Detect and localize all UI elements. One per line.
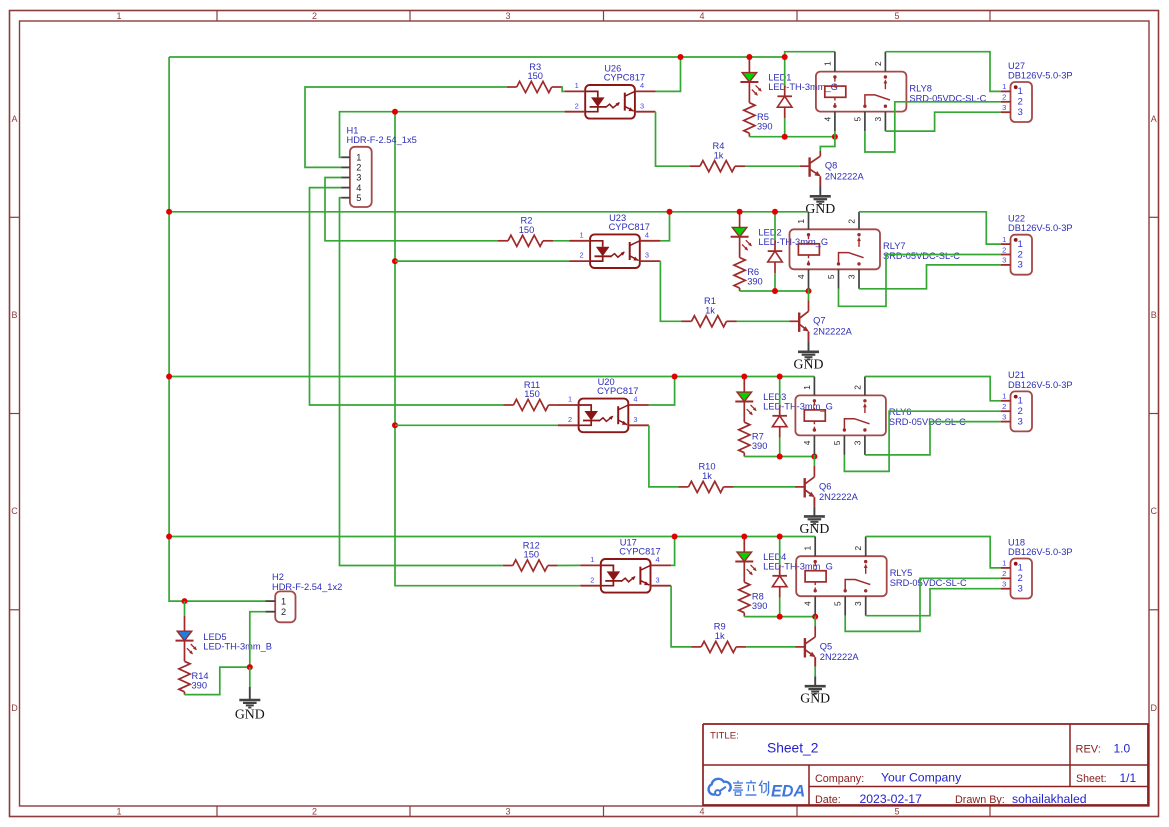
svg-text:2: 2	[568, 415, 572, 424]
svg-text:3: 3	[645, 251, 649, 260]
node	[247, 664, 253, 670]
svg-text:CYPC817: CYPC817	[604, 73, 645, 83]
svg-text:U27: U27	[1008, 61, 1025, 71]
svg-text:4: 4	[796, 274, 806, 279]
svg-text:150: 150	[524, 389, 540, 399]
wire	[660, 212, 669, 241]
node	[806, 288, 812, 294]
diode D1 flyback	[777, 57, 792, 137]
node	[777, 534, 783, 540]
svg-text:GND: GND	[805, 201, 835, 216]
wire	[656, 112, 691, 167]
transistor Q6 2N2222A NPN	[795, 457, 859, 507]
svg-text:Company:: Company:	[815, 773, 864, 785]
resistor R6 390	[734, 237, 763, 291]
node	[746, 54, 752, 60]
wire H1 pin4 to R11	[310, 188, 504, 405]
svg-text:2: 2	[312, 807, 317, 817]
svg-text:sohailakhaled: sohailakhaled	[1012, 792, 1087, 806]
svg-text:Your Company: Your Company	[881, 771, 962, 785]
svg-text:GND: GND	[800, 691, 830, 706]
svg-text:2: 2	[1002, 245, 1006, 254]
node	[777, 374, 783, 380]
svg-text:390: 390	[752, 441, 768, 451]
svg-text:3: 3	[1002, 580, 1006, 589]
wire VCC rail channel 4	[169, 536, 815, 538]
svg-text:4: 4	[802, 440, 812, 445]
svg-text:REV:: REV:	[1076, 744, 1101, 756]
wire	[744, 616, 815, 618]
svg-text:1: 1	[1018, 563, 1023, 574]
svg-text:LED4: LED4	[763, 552, 786, 562]
svg-text:2023-02-17: 2023-02-17	[860, 792, 923, 806]
svg-text:R7: R7	[752, 432, 764, 442]
svg-text:1: 1	[1018, 239, 1023, 250]
svg-text:RLY6: RLY6	[889, 407, 912, 417]
wire	[734, 486, 795, 488]
svg-text:RLY5: RLY5	[890, 568, 913, 578]
svg-text:3: 3	[656, 575, 660, 584]
svg-text:3: 3	[853, 601, 863, 606]
node	[678, 54, 684, 60]
relay RLY7 SRD-05VDC-SL-C	[790, 212, 961, 289]
connector U21 DB126V-5.0-3P	[1001, 370, 1073, 431]
LED LED5 LED-TH-3mm_B	[176, 601, 273, 654]
svg-text:1: 1	[1002, 82, 1006, 91]
svg-text:2: 2	[1018, 97, 1023, 108]
svg-text:RLY8: RLY8	[909, 83, 932, 93]
node	[772, 209, 778, 215]
svg-text:1: 1	[1018, 396, 1023, 407]
resistor R12 150	[503, 540, 558, 571]
wire	[865, 102, 1001, 152]
svg-text:3: 3	[640, 101, 644, 110]
wire	[749, 136, 835, 138]
LED LED2 LED-TH-3mm_G	[731, 212, 829, 251]
relay RLY5 SRD-05VDC-SL-C	[796, 537, 967, 616]
wire	[865, 422, 1001, 455]
node	[741, 374, 747, 380]
svg-text:C: C	[1151, 506, 1158, 516]
svg-text:4: 4	[803, 601, 813, 606]
ground GND (channel 2)	[794, 352, 824, 372]
wire VCC rail channel 3	[169, 376, 814, 378]
wire middle trunk (opto pin2 bus)	[395, 112, 580, 586]
svg-text:2: 2	[873, 61, 883, 66]
svg-text:Q7: Q7	[813, 316, 825, 326]
svg-text:1: 1	[116, 11, 121, 21]
node	[672, 534, 678, 540]
svg-text:2: 2	[1002, 402, 1006, 411]
node	[782, 134, 788, 140]
svg-text:3: 3	[633, 415, 637, 424]
wire	[845, 578, 1001, 631]
node	[392, 109, 398, 115]
svg-text:C: C	[11, 506, 18, 516]
svg-text:4: 4	[699, 807, 704, 817]
wire	[814, 667, 816, 677]
node	[182, 598, 188, 604]
svg-text:1: 1	[796, 219, 806, 224]
svg-text:SRD-05VDC-SL-C: SRD-05VDC-SL-C	[890, 578, 967, 588]
wire	[649, 425, 679, 487]
svg-text:3: 3	[873, 116, 883, 121]
svg-text:RLY7: RLY7	[883, 241, 906, 251]
svg-text:3: 3	[1002, 256, 1006, 265]
resistor R7 390	[739, 402, 768, 457]
connector H1 HDR-F-2.54_1x5	[341, 125, 417, 207]
svg-text:5: 5	[826, 274, 836, 279]
svg-text:Sheet_2: Sheet_2	[767, 741, 818, 756]
svg-text:R8: R8	[752, 592, 764, 602]
svg-text:3: 3	[1018, 416, 1023, 427]
svg-text:5: 5	[356, 193, 361, 203]
svg-text:H1: H1	[347, 125, 359, 135]
svg-text:GND: GND	[799, 521, 829, 536]
resistor R5 390	[744, 82, 773, 137]
resistor R3 150	[507, 62, 562, 93]
svg-text:2N2222A: 2N2222A	[813, 327, 853, 337]
node	[811, 454, 817, 460]
node	[777, 614, 783, 620]
svg-text:A: A	[11, 114, 17, 124]
node	[667, 209, 673, 215]
svg-text:1/1: 1/1	[1120, 771, 1137, 785]
wire	[745, 165, 800, 167]
LED LED4 LED-TH-3mm_G	[735, 537, 833, 576]
node	[737, 209, 743, 215]
svg-text:5: 5	[833, 601, 843, 606]
svg-text:390: 390	[757, 122, 773, 132]
op-amp U20 CYPC817 optocoupler	[558, 377, 649, 432]
wire	[553, 240, 570, 242]
svg-text:2: 2	[575, 101, 579, 110]
LED LED3 LED-TH-3mm_G	[735, 377, 833, 416]
svg-text:R5: R5	[757, 112, 769, 122]
wire	[649, 377, 675, 406]
ground GND (channel 1)	[805, 196, 835, 216]
svg-text:1: 1	[803, 546, 813, 551]
svg-text:U22: U22	[1008, 214, 1025, 224]
title block	[703, 724, 1149, 806]
svg-text:2: 2	[312, 11, 317, 21]
svg-text:390: 390	[747, 276, 763, 286]
node	[832, 134, 838, 140]
svg-text:2: 2	[1002, 569, 1006, 578]
node	[166, 374, 172, 380]
wire	[740, 290, 809, 292]
svg-text:2: 2	[590, 575, 594, 584]
svg-text:1k: 1k	[715, 631, 725, 641]
wire	[865, 377, 1001, 401]
svg-text:LED-TH-3mm_B: LED-TH-3mm_B	[203, 642, 272, 652]
svg-text:R6: R6	[747, 267, 759, 277]
wire	[557, 404, 560, 406]
svg-text:1: 1	[1018, 86, 1023, 97]
wire	[885, 52, 1000, 92]
svg-text:SRD-05VDC-SL-C: SRD-05VDC-SL-C	[883, 251, 960, 261]
wire	[819, 186, 821, 196]
svg-text:3: 3	[505, 11, 510, 21]
svg-text:H2: H2	[272, 572, 284, 582]
svg-text:5: 5	[832, 440, 842, 445]
resistor R9 1k	[691, 622, 746, 653]
svg-text:1: 1	[281, 597, 286, 607]
svg-text:LED-TH-3mm_G: LED-TH-3mm_G	[758, 237, 828, 247]
svg-text:2N2222A: 2N2222A	[820, 652, 860, 662]
diode D2 flyback	[768, 212, 783, 291]
svg-text:2: 2	[1018, 406, 1023, 417]
svg-text:TITLE:: TITLE:	[710, 731, 739, 742]
svg-text:1: 1	[822, 61, 832, 66]
svg-text:2: 2	[853, 546, 863, 551]
svg-text:1: 1	[580, 230, 584, 239]
svg-text:CYPC817: CYPC817	[597, 386, 638, 396]
wire R14 bottom to H2 pin2/GND node	[185, 667, 250, 695]
svg-text:A: A	[1151, 114, 1157, 124]
svg-text:Q8: Q8	[825, 161, 837, 171]
svg-text:4: 4	[699, 11, 704, 21]
wire	[656, 57, 681, 91]
ground GND (LED5)	[235, 700, 265, 722]
resistor R2 150	[498, 216, 553, 247]
svg-text:4: 4	[822, 116, 832, 121]
ground GND (channel 4)	[800, 686, 830, 706]
svg-text:5: 5	[894, 11, 899, 21]
svg-text:3: 3	[1018, 584, 1023, 595]
node	[777, 454, 783, 460]
svg-text:2: 2	[580, 251, 584, 260]
op-amp U23 CYPC817 optocoupler	[570, 213, 661, 268]
svg-text:2: 2	[1002, 93, 1006, 102]
wire H1 pin1 net to opto inputs trunk	[340, 112, 565, 158]
wire	[558, 564, 580, 566]
svg-text:B: B	[1151, 310, 1157, 320]
wire H2 pin2 riser	[250, 612, 266, 667]
svg-text:D: D	[11, 703, 18, 713]
svg-text:Q5: Q5	[820, 641, 832, 651]
svg-text:CYPC817: CYPC817	[609, 222, 650, 232]
svg-text:DB126V-5.0-3P: DB126V-5.0-3P	[1008, 70, 1073, 80]
wire	[813, 455, 815, 457]
connector U18 DB126V-5.0-3P	[1001, 537, 1073, 598]
transistor Q5 2N2222A NPN	[795, 617, 859, 667]
resistor R11 150	[504, 380, 559, 411]
wire H1 pin5 to R12	[340, 198, 503, 566]
svg-text:5: 5	[852, 116, 862, 121]
wire	[834, 131, 836, 137]
svg-text:3: 3	[356, 173, 361, 183]
svg-text:Sheet:: Sheet:	[1076, 773, 1107, 785]
svg-text:LED3: LED3	[763, 392, 786, 402]
LED LED1 LED-TH-3mm_G	[740, 57, 838, 96]
svg-text:2N2222A: 2N2222A	[825, 171, 865, 181]
svg-text:Date:: Date:	[815, 794, 841, 806]
svg-text:1: 1	[802, 385, 812, 390]
svg-text:1: 1	[568, 395, 572, 404]
wire H1 pin2 to R3	[305, 87, 507, 167]
svg-text:HDR-F-2.54_1x5: HDR-F-2.54_1x5	[347, 135, 417, 145]
svg-text:DB126V-5.0-3P: DB126V-5.0-3P	[1008, 547, 1073, 557]
svg-text:1k: 1k	[705, 306, 715, 316]
connector U27 DB126V-5.0-3P	[1001, 61, 1073, 122]
svg-text:3: 3	[1018, 107, 1023, 118]
wire	[844, 411, 1000, 471]
svg-text:3: 3	[1002, 412, 1006, 421]
wire	[839, 255, 1001, 307]
resistor R4 1k	[690, 141, 745, 172]
svg-text:150: 150	[527, 71, 543, 81]
svg-text:2: 2	[846, 219, 856, 224]
svg-text:1: 1	[1002, 235, 1006, 244]
logo EasyEDA (cloud + text)	[709, 779, 806, 801]
svg-text:B: B	[11, 310, 17, 320]
wire ch3 opto pin2 feed	[395, 424, 558, 426]
diode D4 flyback	[772, 537, 787, 617]
svg-text:3: 3	[505, 807, 510, 817]
svg-text:LED2: LED2	[758, 227, 781, 237]
wire	[744, 456, 814, 458]
svg-text:Q6: Q6	[819, 481, 831, 491]
resistor R10 1k	[679, 462, 734, 493]
relay RLY6 SRD-05VDC-SL-C	[795, 377, 966, 455]
svg-text:4: 4	[356, 183, 361, 193]
wire	[814, 615, 816, 618]
svg-text:D: D	[1151, 703, 1158, 713]
svg-text:1: 1	[356, 153, 361, 163]
resistor R1 1k	[682, 296, 737, 327]
node	[672, 374, 678, 380]
relay RLY8 SRD-05VDC-SL-C	[816, 52, 987, 131]
svg-text:GND: GND	[235, 707, 265, 722]
svg-text:150: 150	[524, 550, 540, 560]
svg-text:DB126V-5.0-3P: DB126V-5.0-3P	[1008, 380, 1073, 390]
svg-text:Drawn By:: Drawn By:	[955, 794, 1005, 806]
wire	[859, 212, 1001, 244]
svg-text:1: 1	[1002, 559, 1006, 568]
ground GND (channel 3)	[799, 516, 829, 536]
svg-text:1.0: 1.0	[1114, 742, 1131, 756]
svg-text:3: 3	[852, 440, 862, 445]
svg-text:3: 3	[1002, 103, 1006, 112]
svg-text:2: 2	[852, 385, 862, 390]
svg-text:3: 3	[1018, 260, 1023, 271]
diode D3 flyback	[772, 377, 787, 457]
wire to ground	[249, 667, 251, 687]
resistor R14 390	[179, 641, 209, 695]
op-amp U17 CYPC817 optocoupler	[580, 538, 671, 593]
svg-text:2: 2	[1018, 249, 1023, 260]
node	[812, 614, 818, 620]
svg-text:5: 5	[894, 807, 899, 817]
wire VCC rail channel 2	[169, 211, 808, 213]
svg-text:LED1: LED1	[768, 73, 791, 83]
svg-text:3: 3	[846, 274, 856, 279]
wire	[866, 537, 1001, 568]
svg-text:1: 1	[575, 81, 579, 90]
wire	[885, 112, 1000, 131]
svg-text:CYPC817: CYPC817	[619, 547, 660, 557]
transistor Q7 2N2222A NPN	[789, 291, 852, 341]
connector H2 HDR-F-2.54_1x2	[265, 572, 342, 622]
wire	[660, 261, 681, 321]
svg-text:1: 1	[1002, 392, 1006, 401]
wire left VCC trunk	[169, 57, 265, 601]
svg-text:LED5: LED5	[203, 632, 226, 642]
node	[166, 534, 172, 540]
transistor Q8 2N2222A NPN	[800, 137, 865, 186]
svg-text:2N2222A: 2N2222A	[819, 492, 859, 502]
svg-text:R14: R14	[192, 671, 209, 681]
wire	[737, 320, 790, 322]
wire ch2 opto pin2 feed	[395, 260, 570, 262]
svg-text:GND: GND	[794, 356, 824, 371]
node	[392, 258, 398, 264]
wire	[866, 589, 1001, 616]
svg-text:EDA: EDA	[771, 783, 805, 801]
svg-text:390: 390	[752, 601, 768, 611]
svg-text:DB126V-5.0-3P: DB126V-5.0-3P	[1008, 223, 1073, 233]
wire	[808, 341, 810, 352]
svg-text:390: 390	[192, 681, 208, 691]
svg-text:1k: 1k	[714, 150, 724, 160]
svg-text:1k: 1k	[702, 471, 712, 481]
wire	[746, 646, 795, 648]
svg-text:1: 1	[590, 555, 594, 564]
svg-text:LED-TH-3mm_G: LED-TH-3mm_G	[768, 82, 838, 92]
node	[782, 54, 788, 60]
node	[392, 422, 398, 428]
node	[741, 534, 747, 540]
wire	[562, 87, 565, 91]
wire	[671, 586, 691, 647]
svg-text:U21: U21	[1008, 370, 1025, 380]
svg-text:150: 150	[519, 225, 535, 235]
wire	[671, 537, 675, 566]
svg-text:1: 1	[116, 807, 121, 817]
connector U22 DB126V-5.0-3P	[1001, 214, 1073, 275]
wire H1 pin3 to R2	[325, 178, 498, 241]
svg-text:HDR-F-2.54_1x2: HDR-F-2.54_1x2	[272, 582, 342, 592]
svg-text:U18: U18	[1008, 537, 1025, 547]
svg-text:2: 2	[281, 607, 286, 617]
wire	[808, 289, 810, 291]
wire VCC rail channel 1	[169, 52, 835, 57]
wire	[859, 265, 1001, 289]
svg-text:2: 2	[1018, 573, 1023, 584]
svg-text:2: 2	[356, 163, 361, 173]
wire	[813, 507, 815, 517]
resistor R8 390	[739, 562, 768, 617]
op-amp U26 CYPC817 optocoupler	[565, 64, 656, 119]
node	[166, 209, 172, 215]
node	[772, 288, 778, 294]
